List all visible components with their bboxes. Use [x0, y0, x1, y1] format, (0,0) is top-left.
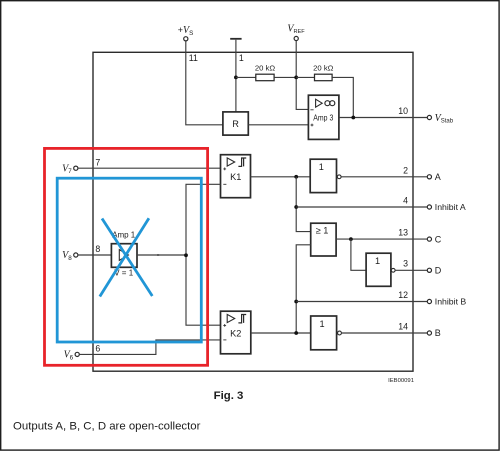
svg-text:K1: K1	[230, 172, 241, 182]
svg-text:V7: V7	[62, 163, 72, 175]
node: inhibit A junction	[294, 205, 298, 209]
wire pin 4 inhibit A	[296, 206, 427, 208]
svg-text:3: 3	[403, 258, 408, 268]
wire +Vs to R	[186, 41, 223, 125]
svg-text:VREF: VREF	[287, 24, 305, 36]
svg-text:A: A	[435, 172, 441, 182]
svg-text:11: 11	[189, 53, 198, 63]
wire to gate D input	[351, 239, 366, 270]
resistor R1 20k	[255, 64, 276, 81]
node: gate A input junction	[294, 175, 298, 179]
inverter gate B	[311, 316, 342, 350]
op-amp Amp 3	[308, 95, 339, 139]
wire R1 right lead	[274, 76, 296, 78]
amplifier Amp 1 (crossed out)	[111, 231, 137, 278]
comparator K1	[221, 155, 251, 198]
wire V6 to K2 inverting input	[79, 340, 220, 355]
node: Vref/R junction	[294, 76, 298, 80]
terminal C	[427, 234, 442, 244]
wire R1 left lead	[236, 76, 256, 78]
node: Amp1 output junction	[184, 253, 188, 257]
terminal Vstab	[427, 113, 453, 125]
svg-text:R: R	[232, 119, 239, 129]
terminal B	[427, 328, 441, 338]
wire K2 output to gate B	[251, 332, 311, 334]
wire pin1 to R	[235, 40, 237, 112]
blue X cross over Amp 1	[100, 218, 153, 296]
node: pin1/R1 junction	[234, 76, 238, 80]
svg-text:V8: V8	[62, 250, 72, 262]
wire Amp3 output to pin 10	[339, 117, 427, 119]
pin tick on Amp1 output	[157, 254, 159, 256]
wire K1 inverting input from Amp1 bus	[186, 184, 221, 325]
wire R2 to Amp3 output node	[332, 77, 353, 117]
wire Amp1 output to bus	[137, 254, 186, 256]
red annotation rectangle	[45, 148, 208, 365]
svg-text:C: C	[435, 234, 442, 244]
svg-text:Inhibit A: Inhibit A	[435, 202, 466, 212]
svg-text:12: 12	[398, 290, 408, 300]
terminal A	[427, 172, 441, 182]
wire bus to OR gate input 1	[296, 177, 311, 232]
resistor block R	[223, 112, 248, 135]
svg-text:20 kΩ: 20 kΩ	[313, 64, 334, 73]
wire R to Amp3 non-inverting input	[248, 124, 308, 126]
svg-text:V6: V6	[64, 350, 74, 362]
wire Vref to Amp3 inverting input	[296, 41, 308, 110]
svg-text:2: 2	[403, 165, 408, 175]
blue annotation rectangle	[57, 178, 201, 342]
terminal Inhibit B	[427, 297, 466, 307]
IC boundary box	[93, 52, 413, 371]
svg-text:1: 1	[239, 53, 244, 63]
svg-text:10: 10	[398, 106, 408, 116]
wire gate B output to pin 14	[341, 332, 427, 334]
node: gate B input junction	[294, 331, 298, 335]
svg-text:7: 7	[95, 157, 100, 167]
svg-text:14: 14	[398, 322, 408, 332]
wire gate D output to pin 3	[395, 269, 428, 271]
svg-text:8: 8	[95, 244, 100, 254]
svg-text:Amp 3: Amp 3	[313, 112, 333, 122]
resistor R2 20k	[313, 64, 334, 81]
node: inhibit B junction	[294, 300, 298, 304]
wire V8 to Amp1	[78, 254, 111, 256]
svg-text:1: 1	[319, 162, 324, 172]
node: feedback/output junction	[351, 116, 355, 120]
svg-text:D: D	[435, 266, 442, 276]
terminal V7	[62, 163, 78, 175]
svg-text:Outputs A, B, C, D are open-co: Outputs A, B, C, D are open-collector	[13, 421, 201, 433]
svg-text:K2: K2	[230, 328, 241, 338]
svg-text:20 kΩ: 20 kΩ	[255, 64, 276, 73]
wire K1 output to gate A	[251, 176, 311, 178]
wire R2 left lead	[296, 76, 314, 78]
terminal +Vs	[178, 25, 194, 41]
terminal V6	[64, 350, 80, 362]
comparator K2	[221, 311, 251, 354]
inverter gate A	[310, 159, 341, 192]
svg-text:Inhibit B: Inhibit B	[435, 297, 467, 307]
pin 1 terminal bar	[230, 38, 241, 40]
terminal D	[427, 266, 442, 276]
inverter gate D	[366, 253, 395, 286]
terminal V8	[62, 250, 78, 262]
svg-text:+VS: +VS	[178, 25, 194, 37]
svg-text:VStab: VStab	[435, 113, 454, 125]
node: C output junction	[349, 237, 353, 241]
OR gate	[311, 223, 336, 256]
terminal Vref	[287, 24, 305, 41]
svg-text:1: 1	[375, 256, 380, 266]
wire gate A output to pin 2	[341, 176, 427, 178]
wire OR input 2 from lower bus	[296, 245, 311, 333]
svg-text:≥ 1: ≥ 1	[316, 226, 329, 236]
svg-text:1: 1	[319, 319, 324, 329]
terminal Inhibit A	[427, 202, 466, 212]
wire V7 to K1 plus input	[78, 167, 221, 169]
svg-text:Fig. 3: Fig. 3	[214, 390, 244, 402]
svg-text:B: B	[435, 328, 441, 338]
svg-text:6: 6	[95, 343, 100, 353]
wire OR output to pin 13	[336, 238, 427, 240]
svg-text:13: 13	[398, 227, 408, 237]
svg-text:4: 4	[403, 196, 408, 206]
wire pin 12 inhibit B	[296, 301, 427, 303]
svg-text:IEB00091: IEB00091	[388, 378, 414, 384]
